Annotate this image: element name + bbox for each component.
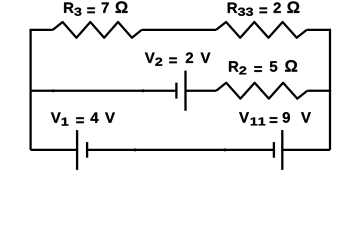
junction dot node C (bottom wire left) (134, 148, 137, 151)
battery V1 short plate (negative) (86, 142, 88, 158)
wire top-right lead (307, 29, 331, 31)
wire right vertical (329, 30, 331, 150)
wire middle between V2 and R2 (186, 90, 217, 92)
wire top-left lead (29, 29, 52, 31)
resistor R33 (216, 22, 307, 38)
battery V11 short plate (negative) (273, 142, 275, 158)
label R3 value (64, 1, 127, 15)
label V11 value (239, 112, 311, 125)
wire middle left (node to battery V2) (31, 90, 177, 92)
wire bottom middle (V1 to V11) (87, 149, 274, 151)
wire bottom right (V11 to right wire) (282, 149, 330, 151)
battery V2 short plate (negative) (175, 83, 177, 99)
battery V11 long plate (positive) (281, 130, 283, 170)
battery V1 long plate (positive) (76, 130, 78, 170)
label V1 value (51, 112, 115, 125)
junction dot node B (middle wire right) (142, 89, 145, 92)
resistor R3 (53, 22, 142, 38)
resistor R2 (216, 83, 307, 99)
wire bottom left (node to battery V1) (31, 149, 78, 151)
label V2 value (145, 52, 211, 65)
wire left vertical (29, 30, 31, 150)
junction dot node A (middle wire left) (52, 89, 55, 92)
label R33 value (228, 1, 300, 15)
wire top middle (142, 29, 216, 31)
junction dot node D (bottom wire right) (224, 148, 227, 151)
label R2 value (229, 60, 297, 74)
wire middle right (R2 to right wire) (307, 90, 330, 92)
battery V2 long plate (positive) (184, 71, 186, 111)
